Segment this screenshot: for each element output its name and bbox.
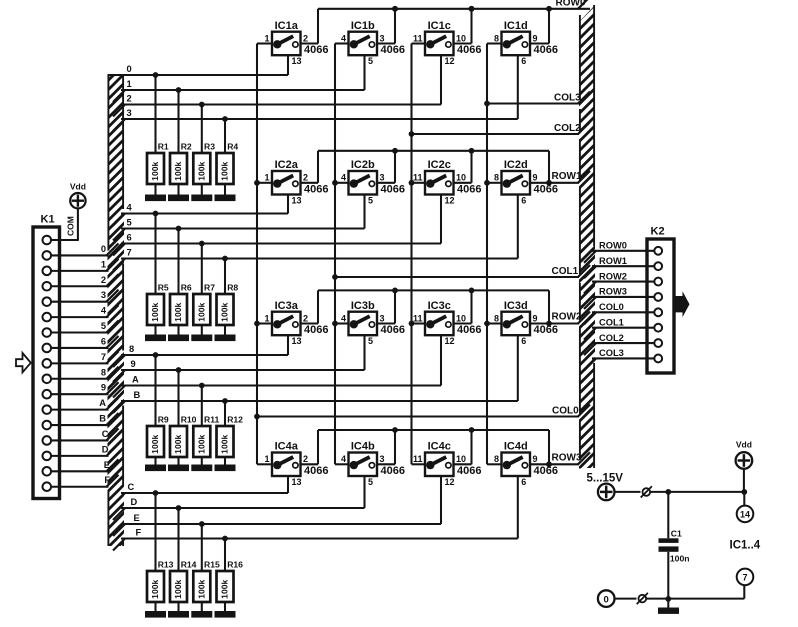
wire key 3 from K1 to bus [51, 290, 118, 302]
ground bar below R14 [168, 611, 189, 618]
plug contact (ground lead) [637, 593, 648, 604]
svg-text:D: D [131, 497, 138, 507]
svg-text:4: 4 [341, 454, 346, 464]
svg-text:B: B [99, 414, 106, 424]
svg-text:B: B [134, 390, 141, 400]
svg-text:R11: R11 [204, 415, 220, 425]
ground bar below R10 [168, 465, 189, 472]
svg-text:IC3b: IC3b [351, 300, 375, 312]
svg-text:8: 8 [494, 33, 499, 43]
analog switch IC1d (4066) [502, 32, 531, 56]
pin 14 of IC1..4 [737, 506, 754, 523]
svg-text:4: 4 [341, 313, 346, 323]
svg-text:5: 5 [127, 218, 132, 228]
analog switch IC1a (4066) [272, 32, 301, 56]
svg-text:1: 1 [264, 313, 269, 323]
bus bar right (hatched) [579, 5, 595, 469]
analog switch IC2d (4066) [502, 171, 531, 195]
svg-text:13: 13 [292, 336, 302, 346]
ground bar below R8 [215, 335, 236, 342]
svg-text:R12: R12 [227, 415, 243, 425]
right bus entry stubs [578, 0, 590, 464]
svg-text:10: 10 [456, 173, 466, 183]
svg-text:4066: 4066 [304, 465, 328, 477]
svg-text:1: 1 [264, 454, 269, 464]
wire key 9 from K1 to bus [51, 382, 118, 394]
svg-text:4066: 4066 [381, 465, 405, 477]
svg-text:IC3c: IC3c [428, 300, 451, 312]
svg-text:IC2c: IC2c [428, 159, 451, 171]
svg-text:IC2d: IC2d [504, 159, 528, 171]
svg-text:R14: R14 [181, 560, 197, 570]
wire key B from bus to IC3d control pin 6 [113, 335, 518, 413]
ground bar below R12 [215, 465, 236, 472]
capacitor C1 100n [659, 492, 679, 600]
svg-text:R4: R4 [227, 142, 238, 152]
resistor R13 100k [147, 493, 174, 611]
svg-text:1: 1 [127, 79, 132, 89]
svg-text:6: 6 [101, 336, 106, 346]
svg-text:0: 0 [127, 64, 132, 74]
wire pin7 to ground rail [743, 585, 745, 598]
svg-text:R3: R3 [204, 142, 215, 152]
svg-text:3: 3 [101, 290, 106, 300]
svg-text:F: F [136, 528, 142, 538]
svg-text:3: 3 [380, 313, 385, 323]
svg-text:13: 13 [292, 477, 302, 487]
svg-text:5: 5 [368, 195, 373, 205]
wire column net vertical (pins 11) x=411.5 [409, 44, 425, 465]
svg-text:ROW3: ROW3 [599, 287, 627, 297]
wire key F from bus to IC4d control pin 6 [113, 476, 518, 551]
svg-text:100k: 100k [173, 302, 183, 321]
svg-text:8: 8 [129, 344, 134, 354]
svg-text:ROW1: ROW1 [552, 171, 582, 182]
svg-text:0: 0 [101, 244, 106, 254]
svg-text:100k: 100k [220, 302, 230, 321]
wire key A from bus to IC3c control pin 12 [113, 335, 441, 397]
svg-text:3: 3 [127, 108, 132, 118]
bus bar left (hatched) [108, 75, 125, 546]
wire key B from K1 to bus [51, 413, 118, 425]
wire key C from bus to IC4a control pin 13 [113, 476, 288, 505]
wire key 5 from K1 to bus [51, 321, 118, 333]
svg-text:4: 4 [101, 306, 107, 316]
svg-text:R13: R13 [158, 560, 174, 570]
wire positive rail [650, 489, 747, 495]
wire key 3 from bus to IC1d control pin 6 [113, 55, 518, 131]
svg-text:A: A [132, 375, 139, 385]
svg-text:10: 10 [456, 33, 466, 43]
resistor R12 100k [217, 401, 244, 465]
svg-text:4066: 4066 [457, 44, 481, 56]
analog switch IC4c (4066) [425, 453, 454, 477]
svg-text:4066: 4066 [304, 324, 328, 336]
wire COL2 to right bus [409, 131, 582, 137]
svg-text:4066: 4066 [534, 324, 558, 336]
wire COM from K1 pin 1 to Vdd [51, 208, 78, 240]
ground bar below R7 [191, 335, 212, 342]
resistor R6 100k [170, 229, 192, 335]
svg-text:1: 1 [101, 259, 106, 269]
analog switch IC2c (4066) [425, 171, 454, 195]
svg-text:100k: 100k [197, 302, 207, 321]
connector K1 [33, 227, 60, 499]
svg-text:R10: R10 [181, 415, 197, 425]
svg-text:IC1b: IC1b [351, 20, 375, 32]
svg-text:100k: 100k [150, 302, 160, 321]
svg-text:4: 4 [341, 173, 346, 183]
svg-text:11: 11 [413, 173, 423, 183]
svg-text:COL1: COL1 [599, 317, 624, 327]
svg-text:0: 0 [604, 594, 609, 605]
svg-text:IC1d: IC1d [504, 20, 528, 32]
svg-text:IC2a: IC2a [275, 159, 299, 171]
resistor R3 100k [193, 105, 215, 195]
resistor R15 100k [193, 524, 220, 611]
svg-text:11: 11 [413, 454, 423, 464]
wire ROW2 from bus to K2 [584, 282, 654, 294]
svg-text:ROW0: ROW0 [599, 241, 627, 251]
svg-text:100k: 100k [150, 161, 160, 180]
svg-text:IC3a: IC3a [275, 300, 299, 312]
svg-text:6: 6 [521, 336, 526, 346]
svg-text:4066: 4066 [457, 184, 481, 196]
wire key 8 from bus to IC3a control pin 13 [113, 335, 288, 367]
ground bar below R4 [215, 195, 236, 202]
svg-text:ROW1: ROW1 [599, 256, 627, 266]
svg-text:5: 5 [368, 56, 373, 66]
ground bar below R6 [168, 335, 189, 342]
svg-text:4066: 4066 [534, 465, 558, 477]
svg-text:IC4a: IC4a [275, 441, 299, 453]
svg-text:100k: 100k [197, 161, 207, 180]
svg-text:7: 7 [127, 248, 132, 258]
svg-text:4066: 4066 [381, 44, 405, 56]
svg-text:5: 5 [368, 477, 373, 487]
analog switch IC1c (4066) [425, 32, 454, 56]
svg-text:9: 9 [533, 454, 538, 464]
svg-text:C1: C1 [671, 529, 682, 539]
svg-text:R8: R8 [227, 283, 238, 293]
wire key E from K1 to bus [51, 459, 118, 471]
svg-text:E: E [104, 460, 110, 470]
svg-text:2: 2 [303, 33, 308, 43]
svg-text:R15: R15 [204, 560, 220, 570]
svg-text:R2: R2 [181, 142, 192, 152]
power terminal Vdd (right) [736, 452, 753, 469]
svg-text:Vdd: Vdd [70, 182, 86, 192]
analog switch IC4b (4066) [349, 453, 378, 477]
resistor R9 100k [147, 355, 169, 465]
ground bar below R15 [191, 611, 212, 618]
svg-text:IC1c: IC1c [428, 20, 451, 32]
svg-text:D: D [102, 444, 109, 454]
resistor R4 100k [217, 119, 239, 195]
ground bar below R9 [145, 465, 166, 472]
wire from + terminal to plug [615, 491, 641, 493]
svg-text:11: 11 [413, 33, 423, 43]
wire COL1 from bus to K2 [584, 328, 654, 340]
svg-text:100k: 100k [197, 434, 207, 453]
svg-text:8: 8 [101, 367, 106, 377]
resistor R8 100k [217, 259, 239, 335]
wire from 0 terminal to plug [615, 598, 637, 600]
ground bar below R2 [168, 195, 189, 202]
resistor R7 100k [193, 244, 215, 335]
svg-text:10: 10 [456, 313, 466, 323]
svg-text:2: 2 [101, 275, 106, 285]
ground bar below R13 [145, 611, 166, 618]
arrow into K1 [16, 353, 31, 372]
wire key F from K1 to bus [51, 475, 118, 487]
svg-text:C: C [102, 429, 109, 439]
wire ROW1 output net [301, 148, 591, 186]
resistor R11 100k [193, 386, 219, 465]
svg-text:7: 7 [101, 352, 106, 362]
power terminal 0 (ground input) [598, 590, 615, 607]
svg-text:100k: 100k [220, 579, 230, 598]
ground symbol [658, 599, 679, 614]
analog switch IC3d (4066) [502, 312, 531, 336]
svg-text:E: E [134, 513, 140, 523]
svg-text:4066: 4066 [457, 465, 481, 477]
wire column net vertical (pins 4) x=335.0 [332, 44, 348, 465]
svg-text:1: 1 [264, 33, 269, 43]
svg-text:IC1a: IC1a [275, 20, 299, 32]
svg-text:COL2: COL2 [554, 123, 581, 134]
svg-text:100k: 100k [173, 434, 183, 453]
svg-text:100k: 100k [150, 434, 160, 453]
wire key 7 from K1 to bus [51, 351, 118, 363]
svg-text:A: A [99, 398, 106, 408]
wire key 9 from bus to IC3b control pin 5 [113, 335, 365, 382]
svg-text:100k: 100k [173, 579, 183, 598]
plug contact (positive lead) [641, 486, 652, 497]
wire COL0 from bus to K2 [584, 312, 654, 324]
svg-text:9: 9 [131, 359, 136, 369]
svg-text:14: 14 [740, 510, 750, 520]
wire key C from K1 to bus [51, 428, 118, 440]
wire key 0 from K1 to bus [51, 243, 118, 255]
svg-text:R1: R1 [158, 142, 169, 152]
wire key 6 from K1 to bus [51, 336, 118, 348]
analog switch IC2a (4066) [272, 171, 301, 195]
svg-text:12: 12 [445, 195, 455, 205]
svg-text:6: 6 [521, 56, 526, 66]
wire key D from bus to IC4b control pin 5 [113, 476, 365, 520]
svg-text:6: 6 [521, 477, 526, 487]
ground bar below R16 [215, 611, 236, 618]
analog switch IC3a (4066) [272, 312, 301, 336]
wire key 5 from bus to IC2b control pin 5 [113, 195, 365, 241]
svg-text:100k: 100k [173, 161, 183, 180]
svg-text:9: 9 [533, 313, 538, 323]
arrow out of K2 [676, 291, 690, 317]
svg-text:2: 2 [303, 454, 308, 464]
wire key 0 from bus to IC1a control pin 13 [108, 55, 289, 78]
svg-text:COL1: COL1 [552, 266, 579, 277]
wire COL1 to right bus [332, 274, 582, 280]
wire key 2 from K1 to bus [51, 274, 118, 286]
svg-text:7: 7 [742, 573, 747, 583]
svg-text:4: 4 [341, 33, 346, 43]
wire key 4 from bus to IC2a control pin 13 [113, 195, 288, 226]
svg-text:4066: 4066 [304, 44, 328, 56]
analog switch IC1b (4066) [349, 32, 378, 56]
svg-text:R6: R6 [181, 283, 192, 293]
wire key 1 from K1 to bus [51, 259, 118, 271]
ground bar below R3 [191, 195, 212, 202]
resistor R14 100k [170, 508, 197, 611]
analog switch IC4a (4066) [272, 453, 301, 477]
svg-text:4066: 4066 [534, 44, 558, 56]
resistor R2 100k [170, 90, 192, 195]
pin 7 of IC1..4 [737, 569, 754, 586]
svg-text:ROW3: ROW3 [552, 452, 582, 463]
svg-text:COL0: COL0 [599, 302, 624, 312]
svg-text:C: C [128, 482, 135, 492]
svg-text:IC3d: IC3d [504, 300, 528, 312]
ground bar below R5 [145, 335, 166, 342]
svg-text:K1: K1 [41, 214, 55, 226]
svg-text:12: 12 [445, 56, 455, 66]
power terminal Vdd (top left) [70, 193, 85, 208]
svg-text:6: 6 [127, 233, 132, 243]
svg-text:2: 2 [303, 313, 308, 323]
svg-text:IC4c: IC4c [428, 441, 451, 453]
analog switch IC3c (4066) [425, 312, 454, 336]
svg-text:8: 8 [494, 454, 499, 464]
wire ROW2 output net [301, 288, 591, 327]
analog switch IC2b (4066) [349, 171, 378, 195]
resistor R1 100k [147, 75, 169, 195]
svg-text:Vdd: Vdd [736, 440, 752, 450]
wire key E from bus to IC4c control pin 12 [113, 476, 441, 536]
wire column net vertical (pins 1) x=257.0 [254, 44, 272, 465]
svg-text:IC4d: IC4d [504, 441, 528, 453]
wire ROW3 from bus to K2 [584, 297, 654, 309]
wire ROW1 from bus to K2 [584, 266, 654, 278]
svg-text:4: 4 [127, 203, 133, 213]
wire COL0 to right bus [254, 414, 582, 420]
svg-text:11: 11 [413, 313, 423, 323]
wire COL3 from bus to K2 [584, 358, 654, 370]
svg-text:9: 9 [533, 33, 538, 43]
svg-text:9: 9 [101, 383, 106, 393]
svg-text:100k: 100k [150, 579, 160, 598]
wire key A from K1 to bus [51, 398, 118, 410]
wire key 2 from bus to IC1c control pin 12 [113, 55, 441, 116]
svg-text:COL0: COL0 [552, 405, 579, 416]
power terminal + (5...15V) [598, 484, 615, 501]
svg-text:R5: R5 [158, 283, 169, 293]
svg-text:5: 5 [368, 336, 373, 346]
svg-text:2: 2 [127, 94, 132, 104]
resistor R10 100k [170, 370, 197, 465]
svg-text:100k: 100k [197, 579, 207, 598]
svg-text:3: 3 [380, 454, 385, 464]
wire key 1 from bus to IC1b control pin 5 [113, 55, 365, 102]
svg-text:R9: R9 [158, 415, 169, 425]
svg-text:5...15V: 5...15V [587, 473, 624, 485]
wire Vdd to pin 14 [743, 469, 745, 506]
svg-text:IC4b: IC4b [351, 441, 375, 453]
svg-text:4066: 4066 [534, 184, 558, 196]
analog switch IC3b (4066) [349, 312, 378, 336]
wire ROW0 from bus to K2 [584, 251, 654, 263]
svg-text:100n: 100n [670, 554, 690, 564]
svg-text:12: 12 [445, 477, 455, 487]
analog switch IC4d (4066) [502, 453, 531, 477]
svg-text:100k: 100k [220, 434, 230, 453]
svg-text:4066: 4066 [304, 184, 328, 196]
wire ground rail [646, 596, 744, 602]
svg-text:5: 5 [101, 321, 106, 331]
svg-text:10: 10 [456, 454, 466, 464]
wire COL3 to right bus [484, 101, 582, 107]
svg-text:COL3: COL3 [554, 92, 581, 103]
wire ROW3 output net [301, 427, 591, 467]
wire COL2 from bus to K2 [584, 343, 654, 355]
svg-text:1: 1 [264, 173, 269, 183]
svg-text:K2: K2 [651, 226, 665, 238]
ground bar below R11 [191, 465, 212, 472]
svg-text:13: 13 [292, 56, 302, 66]
svg-text:3: 3 [380, 33, 385, 43]
wire key D from K1 to bus [51, 444, 118, 456]
svg-text:8: 8 [494, 173, 499, 183]
svg-text:4066: 4066 [457, 324, 481, 336]
svg-text:COL2: COL2 [599, 333, 624, 343]
svg-text:R16: R16 [227, 560, 243, 570]
wire column net vertical (pins 8) x=487.0 [484, 44, 501, 465]
svg-text:3: 3 [380, 173, 385, 183]
svg-text:4066: 4066 [381, 184, 405, 196]
svg-text:12: 12 [445, 336, 455, 346]
svg-text:IC2b: IC2b [351, 159, 375, 171]
svg-text:ROW2: ROW2 [552, 312, 582, 323]
wire key 6 from bus to IC2c control pin 12 [113, 195, 441, 256]
svg-text:IC1..4: IC1..4 [730, 540, 761, 552]
wire key 8 from K1 to bus [51, 367, 118, 379]
wire key 7 from bus to IC2d control pin 6 [113, 195, 518, 271]
ground bar below R1 [145, 195, 166, 202]
svg-text:9: 9 [533, 173, 538, 183]
svg-text:6: 6 [521, 195, 526, 205]
svg-text:100k: 100k [220, 161, 230, 180]
connector K2 [647, 239, 674, 373]
svg-text:ROW2: ROW2 [599, 271, 627, 281]
wire ROW0 output net [301, 6, 591, 44]
svg-text:F: F [104, 475, 110, 485]
svg-text:4066: 4066 [381, 324, 405, 336]
svg-text:2: 2 [303, 173, 308, 183]
svg-text:8: 8 [494, 313, 499, 323]
wire key 4 from K1 to bus [51, 305, 118, 317]
resistor R5 100k [147, 214, 169, 335]
svg-text:COL3: COL3 [599, 348, 624, 358]
svg-text:13: 13 [292, 195, 302, 205]
svg-text:R7: R7 [204, 283, 215, 293]
resistor R16 100k [217, 539, 244, 612]
svg-text:COM: COM [66, 216, 76, 236]
